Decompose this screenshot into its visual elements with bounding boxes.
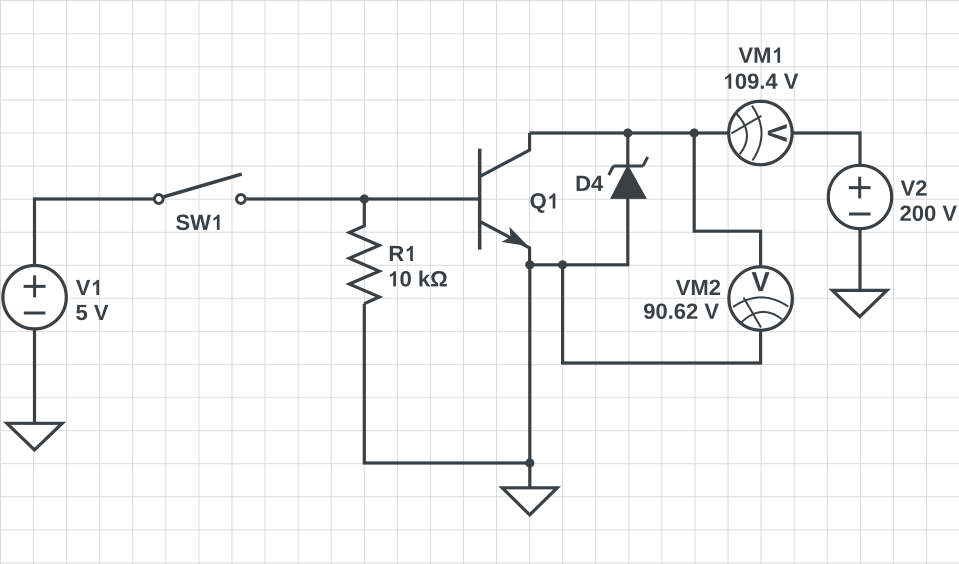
- wire VM2 top path: [694, 133, 760, 266]
- label SW1: [176, 215, 219, 231]
- zener diode D4: [609, 157, 648, 198]
- wire D4 top stem: [626, 133, 629, 166]
- wire R1 bottom run: [364, 304, 530, 463]
- node top rail D4: [623, 128, 632, 137]
- node bottom: [525, 458, 534, 467]
- wire emitter to D4 bottom: [530, 198, 628, 265]
- label V2: [901, 180, 927, 195]
- label VM1: [739, 48, 781, 63]
- label VM2: [676, 280, 720, 295]
- wire V2 bottom: [858, 230, 861, 291]
- transistor Q1: [480, 133, 530, 265]
- voltmeter VM2: [729, 267, 792, 330]
- resistor R1: [349, 199, 379, 304]
- value label 5 V: [76, 305, 108, 320]
- voltage source V2: [828, 165, 891, 228]
- value label 10 kOhm: [390, 270, 447, 286]
- wire SW1 to Q1 base: [247, 197, 480, 200]
- wire V1 top to SW1: [35, 199, 154, 265]
- ground (V1): [7, 423, 62, 450]
- label V1: [76, 280, 99, 295]
- voltage source V1: [3, 266, 66, 329]
- wire VM2 bottom loop: [563, 265, 761, 363]
- ground (V2): [832, 290, 887, 316]
- node emitter VM2 return: [558, 260, 567, 269]
- wire V1 bottom: [33, 329, 36, 424]
- wire emitter ground stem: [528, 265, 531, 488]
- wire top rail collector to V2: [530, 133, 860, 165]
- Q1 emitter arrow: [501, 227, 528, 246]
- node R1/base: [360, 194, 369, 203]
- label R1: [390, 246, 413, 261]
- value label 109.4 V: [725, 73, 798, 89]
- switch SW1: [154, 174, 245, 203]
- voltmeter VM1: [729, 101, 792, 164]
- ground (emitter): [502, 488, 557, 515]
- node top rail VM2: [690, 128, 699, 137]
- node emitter: [525, 260, 534, 269]
- value label 200 V: [900, 205, 957, 221]
- label D4: [577, 176, 604, 191]
- value label 90.62 V: [644, 303, 719, 319]
- label Q1: [531, 193, 556, 213]
